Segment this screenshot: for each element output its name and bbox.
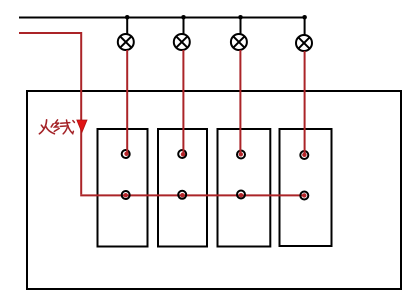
lamp L1	[118, 34, 134, 50]
wire: live feed (red), left entry down to bus	[19, 33, 81, 194]
lamp L4	[296, 35, 312, 51]
arrow: current direction on live feed	[77, 120, 87, 133]
terminal S2 bottom	[178, 191, 186, 199]
terminal S3 top	[237, 151, 245, 159]
wire: red lamp L1 to switch S1 top terminal	[126, 50, 128, 153]
wire: red lamp L4 to switch S4 top terminal	[304, 51, 306, 154]
node J3 (lamp 3 tap)	[238, 15, 243, 20]
node: red dot in terminal S3 bottom	[239, 193, 243, 197]
node: red dot in terminal S1 bottom	[124, 193, 128, 197]
terminal S1 top	[122, 150, 130, 158]
wire: lamp L1 drop stub	[126, 18, 128, 36]
switch S3 body	[218, 129, 271, 247]
terminal S1 bottom	[122, 191, 130, 199]
node J4 (lamp 4 tap, end of feed)	[302, 15, 307, 20]
wire: lamp L2 drop stub	[183, 18, 185, 36]
wire: red bus through switch bottom terminals	[80, 194, 304, 196]
wire: red lamp L3 to switch S3 top terminal	[239, 50, 241, 154]
node: red dot in terminal S3 top	[239, 152, 243, 156]
wire: top neutral feed line	[19, 17, 305, 19]
label 火线 (live wire), char 线	[54, 120, 74, 134]
terminal S4 top	[300, 151, 308, 159]
node: red dot in terminal S2 top	[181, 152, 185, 156]
switch S2 body	[158, 129, 207, 247]
lamp L2	[174, 34, 190, 50]
node: red dot in terminal S4 bottom	[302, 193, 306, 197]
node: red dot in terminal S4 top	[302, 153, 306, 157]
node J1 (lamp 1 tap)	[125, 15, 130, 20]
wire: lamp L4 drop stub	[304, 18, 306, 37]
switch S1 body	[98, 129, 148, 247]
wire: lamp L3 drop stub	[240, 18, 242, 36]
enclosure box (switch panel)	[27, 91, 401, 289]
terminal S2 top	[178, 150, 186, 158]
lamp L3	[231, 34, 247, 50]
node J2 (lamp 2 tap)	[181, 15, 186, 20]
terminal S3 bottom	[237, 191, 245, 199]
node: red dot in terminal S1 top	[124, 152, 128, 156]
terminal S4 bottom	[300, 192, 308, 200]
wire: red lamp L2 to switch S2 top terminal	[182, 50, 184, 154]
node: red dot in terminal S2 bottom	[180, 193, 184, 197]
switch S4 body	[280, 129, 332, 246]
label 火线 (live wire), char 火	[39, 120, 54, 134]
